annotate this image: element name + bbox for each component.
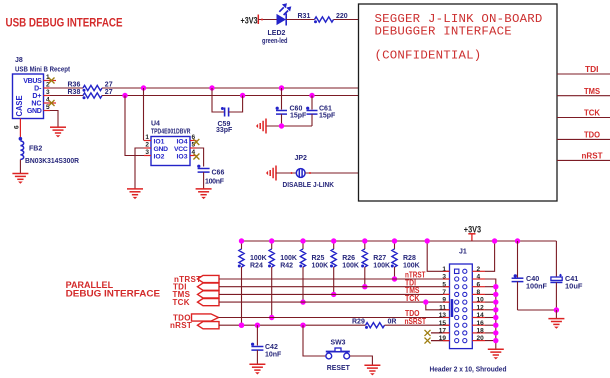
svg-text:100K: 100K	[312, 262, 329, 269]
capacitor C66 100nF	[197, 165, 225, 186]
junction R26 at net	[331, 292, 336, 297]
svg-text:TCK: TCK	[584, 109, 600, 118]
svg-text:IO3: IO3	[177, 153, 188, 160]
svg-text:GND: GND	[154, 146, 169, 153]
junction D+ at U4 drop	[122, 93, 127, 98]
junction R25 at net	[300, 299, 305, 304]
resistor R28 100K pull-up	[391, 241, 420, 279]
svg-text:GND: GND	[27, 108, 42, 115]
ground for FB2	[12, 174, 28, 184]
wire FB2 to ground	[19, 160, 21, 174]
svg-text:8: 8	[477, 289, 481, 296]
no-connect X on U4 pin 4	[193, 154, 199, 160]
block SEGGER J-LINK ON-BOARD DEBUGGER INTERFACE	[359, 4, 558, 201]
svg-text:100K: 100K	[403, 262, 420, 269]
svg-text:5: 5	[442, 281, 446, 288]
wire/node nRST out of SEGGER box	[557, 152, 610, 161]
svg-text:C42: C42	[265, 344, 278, 351]
svg-text:33pF: 33pF	[216, 127, 233, 134]
svg-text:13: 13	[439, 312, 447, 319]
wire U4 GND pin 2 to ground	[135, 148, 144, 189]
svg-text:15: 15	[439, 320, 447, 327]
svg-text:1: 1	[145, 134, 149, 141]
wire SW3 to ground	[350, 356, 373, 365]
svg-text:C60: C60	[290, 105, 303, 112]
ground for C42	[249, 364, 265, 374]
svg-text:+3V3: +3V3	[464, 225, 481, 235]
junction R42 at net	[269, 315, 274, 320]
junction C60 bottom	[279, 123, 284, 128]
junction R24 at +3V3 rail	[239, 238, 244, 243]
J8 pin 6 CASE stub	[14, 119, 21, 138]
junction TCK pin11 drop	[423, 299, 428, 304]
wire LED2 to R31	[286, 19, 314, 21]
svg-text:100K: 100K	[342, 262, 359, 269]
title PARALLEL DEBUG INTERFACE	[66, 280, 161, 299]
ground for U4 pin 2	[127, 189, 143, 199]
ground for J1 even pins	[488, 349, 504, 359]
wire U4 VCC pin 5 to C66	[197, 148, 204, 167]
no-connect X on J8 pin 1 VBUS	[49, 78, 55, 84]
capacitor C61 15pF	[306, 96, 336, 127]
resistor R42 100K pull-up	[268, 241, 297, 318]
svg-text:10: 10	[477, 297, 485, 304]
svg-text:100nF: 100nF	[205, 178, 225, 185]
port nTRST (input)	[174, 275, 219, 284]
svg-text:VBUS: VBUS	[23, 78, 42, 85]
note Header 2 x 10, Shrouded	[430, 366, 507, 373]
wire ground to JP2	[276, 172, 296, 174]
svg-text:SW3: SW3	[331, 338, 346, 347]
svg-text:R36: R36	[68, 81, 81, 88]
svg-text:R38: R38	[68, 89, 81, 96]
junction R25 at +3V3 rail	[300, 238, 305, 243]
svg-text:FB2: FB2	[29, 146, 42, 153]
svg-text:R24: R24	[250, 262, 263, 269]
wire net TMS	[219, 285, 450, 295]
svg-text:R27: R27	[373, 255, 386, 262]
svg-text:D-: D-	[34, 86, 42, 93]
svg-text:IO1: IO1	[154, 138, 165, 145]
junction D- at C59	[209, 85, 214, 90]
svg-text:green-led: green-led	[262, 38, 288, 45]
wire JP2 to SEGGER box	[305, 172, 358, 174]
svg-text:15pF: 15pF	[319, 113, 336, 120]
svg-text:TPD4E001DBVR: TPD4E001DBVR	[151, 128, 191, 135]
svg-text:0R: 0R	[388, 319, 397, 326]
port nRST (input)	[170, 321, 219, 330]
junction R27 at +3V3 rail	[362, 238, 367, 243]
svg-text:R42: R42	[280, 262, 293, 269]
wire D+ from J8 pin 3 to R38	[50, 95, 83, 97]
svg-text:TMS: TMS	[584, 87, 601, 96]
no-connect X on J8 pin 4 NC	[49, 100, 55, 106]
svg-text:12: 12	[477, 304, 485, 311]
svg-text:nRST: nRST	[170, 321, 192, 330]
wire C40 bottom to C41 bottom	[518, 309, 557, 311]
capacitor C60 15pF	[276, 88, 307, 126]
svg-text:16: 16	[477, 320, 485, 327]
svg-text:J8: J8	[15, 57, 23, 64]
svg-text:IO4: IO4	[177, 138, 188, 145]
capacitor C40 100nF	[512, 241, 548, 310]
resistor R27 100K pull-up	[361, 241, 390, 287]
IC U4 TPD4E001DBVR	[151, 121, 191, 166]
svg-text:R26: R26	[342, 255, 355, 262]
junction pin2 riser at rail	[492, 238, 497, 243]
svg-text:VCC: VCC	[174, 146, 188, 153]
svg-text:2: 2	[477, 266, 481, 273]
svg-text:7: 7	[442, 289, 446, 296]
svg-text:100nF: 100nF	[526, 282, 547, 291]
J1 pin stubs	[443, 271, 485, 340]
wire/node TMS out of SEGGER box	[557, 87, 610, 96]
switch SW3 RESET	[326, 338, 350, 373]
wire J8 GND pin to ground	[50, 111, 58, 127]
svg-text:IO2: IO2	[154, 153, 165, 160]
wire TCK to J1 pin 11	[426, 302, 450, 310]
J1 pin circles	[455, 269, 467, 343]
junction R28 at +3V3 rail	[392, 238, 397, 243]
wire +3V3 rail	[242, 240, 557, 242]
junction D- at C60	[279, 85, 284, 90]
wire net TDI	[219, 277, 450, 287]
svg-text:USB Mini B Recept: USB Mini B Recept	[15, 67, 71, 74]
wire D+ down to U4 pin 3	[125, 96, 144, 156]
wire C60 C61 common to ground	[266, 125, 312, 127]
svg-text:2: 2	[145, 142, 149, 149]
svg-text:TCK: TCK	[405, 293, 420, 303]
svg-text:TDI: TDI	[585, 65, 599, 74]
wire C41 bottom to ground	[555, 310, 557, 318]
svg-text:17: 17	[439, 328, 447, 335]
junction D+ at C59	[240, 93, 245, 98]
resistor R26 100K pull-up	[330, 241, 359, 294]
resistor R24 100K pull-up	[238, 241, 267, 325]
svg-text:10nF: 10nF	[265, 351, 282, 358]
J1 pin numbers	[439, 266, 484, 342]
wire J1 pin 1 to +3V3 rail	[427, 241, 450, 271]
wire/node TCK out of SEGGER box	[557, 109, 610, 118]
svg-text:nSRST: nSRST	[405, 316, 427, 326]
svg-text:D+: D+	[32, 93, 41, 100]
no-connect X on U4 pin 6	[193, 139, 199, 145]
resistor R38 27	[68, 89, 113, 99]
wire/node TDI out of SEGGER box	[557, 65, 610, 74]
svg-text:3: 3	[442, 274, 446, 281]
wire +3V3 to LED2	[258, 19, 276, 21]
port TDO (output)	[173, 313, 219, 322]
capacitor C59 33pF	[212, 88, 243, 134]
svg-text:R31: R31	[298, 13, 311, 20]
wire net nRST to R29	[219, 324, 366, 326]
junction C41 bottom	[554, 307, 559, 312]
svg-text:J1: J1	[459, 249, 467, 256]
resistor R29 0R	[352, 319, 396, 329]
LED LED2 green-led	[262, 3, 291, 45]
capacitor C42 10nF	[251, 325, 282, 364]
power +3V3 (J1)	[464, 225, 481, 242]
svg-text:4: 4	[477, 274, 481, 281]
junction R26 at +3V3 rail	[331, 238, 336, 243]
junction R42 at +3V3 rail	[269, 238, 274, 243]
wire net USBDP (D+) to SEGGER box	[102, 95, 359, 97]
no-connect X on J1 pin 17	[425, 330, 451, 336]
svg-text:15pF: 15pF	[290, 113, 307, 120]
port TDI (input)	[173, 283, 219, 292]
svg-text:JP2: JP2	[295, 155, 308, 162]
svg-text:3: 3	[145, 149, 149, 156]
svg-text:10uF: 10uF	[565, 282, 583, 291]
power +3V3 (LED)	[241, 15, 259, 26]
no-connect X on J1 pin 19	[425, 338, 451, 344]
svg-text:U4: U4	[151, 121, 160, 128]
jumper JP2 DISABLE J-LINK	[283, 155, 335, 189]
svg-text:RESET: RESET	[327, 363, 350, 372]
junction rail at C40	[515, 238, 520, 243]
wire R29 to J1 pin 15 (net nSRST)	[385, 316, 451, 326]
svg-text:CASE: CASE	[15, 95, 24, 117]
connector J8 USB Mini B Recept	[13, 57, 71, 119]
wire J1 pin 2 to +3V3 rail	[485, 241, 495, 271]
ground (sideways) for C60 C61	[256, 119, 266, 134]
svg-text:14: 14	[477, 312, 485, 319]
svg-text:100K: 100K	[250, 255, 267, 262]
ground for C40 C41	[548, 319, 564, 329]
svg-text:20: 20	[477, 335, 485, 342]
wire nRST down to SW3	[303, 325, 326, 356]
wire J1 even pins ground bus	[485, 279, 498, 349]
junction nRST at R24	[239, 323, 244, 328]
svg-text:NC: NC	[31, 101, 41, 108]
J8 pin stubs and numbers	[44, 74, 57, 111]
svg-text:C61: C61	[319, 105, 332, 112]
svg-text:100K: 100K	[373, 262, 390, 269]
junction R27 at net	[362, 284, 367, 289]
svg-text:USB DEBUG INTERFACE: USB DEBUG INTERFACE	[6, 15, 123, 29]
ground for J8 GND	[50, 127, 66, 137]
svg-text:3: 3	[46, 89, 50, 96]
resistor R25 100K pull-up	[299, 241, 328, 302]
wire D- from J8 pin 2 to R36	[50, 87, 83, 89]
capacitor C41 10uF (polarized)	[550, 241, 583, 310]
svg-text:11: 11	[439, 304, 446, 311]
wire net nTRST	[219, 270, 450, 280]
wire net USBDM (D-) to SEGGER box	[102, 87, 359, 89]
svg-text:Header 2 x 10, Shrouded: Header 2 x 10, Shrouded	[430, 366, 507, 373]
svg-text:6: 6	[477, 281, 481, 288]
svg-text:9: 9	[442, 297, 446, 304]
svg-text:DISABLE J-LINK: DISABLE J-LINK	[283, 180, 335, 189]
svg-text:(CONFIDENTIAL): (CONFIDENTIAL)	[375, 49, 482, 63]
resistor R31 220	[298, 13, 348, 23]
svg-text:100K: 100K	[280, 255, 297, 262]
svg-text:BN03K314S300R: BN03K314S300R	[25, 158, 79, 165]
junction R28 at net	[392, 276, 397, 281]
svg-text:R28: R28	[403, 255, 416, 262]
junction R24 at net	[239, 323, 244, 328]
connector J1 header 2x10	[450, 249, 473, 349]
junction nRST at SW3 drop	[300, 323, 305, 328]
svg-text:R29: R29	[352, 319, 365, 326]
svg-text:19: 19	[439, 335, 447, 342]
wire C66 to ground	[203, 172, 205, 189]
svg-text:6: 6	[14, 125, 21, 129]
junction D- at U4 drop	[141, 85, 146, 90]
svg-text:1: 1	[442, 266, 446, 273]
svg-text:TCK: TCK	[173, 298, 190, 307]
ferrite bead FB2	[19, 137, 79, 165]
svg-text:LED2: LED2	[268, 30, 286, 37]
title USB DEBUG INTERFACE	[6, 15, 123, 29]
svg-text:C66: C66	[212, 170, 225, 177]
junction D+ at C61	[309, 93, 314, 98]
resistor R36 27	[68, 81, 113, 91]
wire R31 to SEGGER box	[334, 19, 359, 21]
svg-text:DEBUGGER INTERFACE: DEBUGGER INTERFACE	[375, 25, 512, 39]
port TMS (input)	[173, 290, 220, 299]
svg-text:+3V3: +3V3	[241, 15, 258, 25]
wire/node TDO out of SEGGER box	[557, 131, 610, 140]
junction pin1 riser at rail	[425, 238, 430, 243]
svg-text:18: 18	[477, 328, 485, 335]
wire net TCK	[219, 293, 450, 303]
U4 pin stubs and numbers	[144, 134, 197, 156]
svg-text:R25: R25	[312, 255, 325, 262]
svg-text:nRST: nRST	[582, 152, 603, 161]
ground for C66	[196, 189, 212, 199]
ground (sideways) for JP2	[266, 166, 276, 181]
svg-text:27: 27	[105, 81, 113, 88]
ground for SW3	[364, 365, 380, 375]
junction nRST at C42	[255, 323, 260, 328]
wire D- down to U4 pin 1	[143, 88, 145, 141]
svg-text:DEBUG INTERFACE: DEBUG INTERFACE	[66, 289, 161, 299]
wire net TDO	[219, 308, 451, 318]
port TCK (input)	[173, 298, 220, 307]
svg-text:TDO: TDO	[584, 131, 600, 140]
